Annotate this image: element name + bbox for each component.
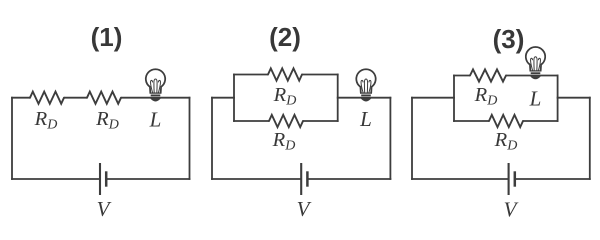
circuit 2 bottom branch wire b [303,120,339,122]
battery V2 [300,163,302,195]
svg-text:L: L [149,108,162,132]
circuit 3 left stub wire [411,97,455,99]
svg-text:(2): (2) [269,22,301,52]
circuit 2 bottom wire left segment [211,178,301,180]
resistor R5 (R_D top) [470,69,506,81]
circuit 3 right wire [589,97,591,180]
circuit 2 left wire [211,97,213,180]
circuit 3 left wire [411,97,413,180]
circuit 1 top wire segment a [11,97,30,99]
circuit 1 right wire [189,97,191,180]
svg-text:RD: RD [95,108,119,133]
circuit 3 top branch wire a [453,75,470,77]
circuit 2 right stub wire [337,97,392,99]
svg-text:V: V [297,197,312,221]
circuit 2 right wire [389,97,391,180]
resistor R1 (R_D) [30,92,64,104]
circuit 1 bottom wire left segment [11,178,100,180]
circuit 3 parallel box left side wire [453,75,455,122]
circuit 3 bottom wire right segment [515,178,591,180]
circuit 1 top wire segment b [64,97,87,99]
circuit 2 top branch wire b [302,74,339,76]
circuit 3 bottom branch wire a [453,120,489,122]
circuit 1 top wire segment c [121,97,190,99]
resistor R3 (R_D top) [268,68,302,80]
battery V1 [99,163,101,195]
svg-text:RD: RD [273,84,297,109]
svg-text:V: V [504,198,519,222]
resistor R2 (R_D) [87,92,121,104]
lamp L1 (light bulb) [146,69,165,101]
svg-text:L: L [359,107,372,131]
svg-text:V: V [97,197,112,221]
svg-text:(1): (1) [91,22,123,52]
circuit 1 bottom wire right segment [106,178,190,180]
svg-text:L: L [529,87,542,111]
circuit 3 parallel box right side wire [557,75,559,122]
svg-text:(3): (3) [493,24,525,54]
battery V3 [508,163,510,195]
lamp L3 (light bulb) [526,47,545,79]
resistor R6 (R_D bottom) [489,115,523,127]
circuit 2 left stub wire [211,97,235,99]
circuit 2 parallel box left side wire [233,74,235,122]
circuit 3 right stub wire [557,97,591,99]
circuit 3 bottom wire left segment [411,178,509,180]
circuit 1 left wire [11,97,13,180]
resistor R4 (R_D bottom) [269,115,303,127]
svg-text:RD: RD [272,129,296,154]
svg-text:RD: RD [494,129,518,154]
svg-text:RD: RD [474,84,498,109]
svg-text:RD: RD [34,108,58,133]
lamp L2 (light bulb) [356,69,375,101]
circuit 2 bottom branch wire a [233,120,269,122]
circuit 2 bottom wire right segment [307,178,391,180]
circuit 3 top branch wire b [506,75,559,77]
circuit 2 parallel box right side wire [337,74,339,122]
circuit 3 bottom branch wire b [523,120,559,122]
circuit 2 top branch wire a [233,74,268,76]
